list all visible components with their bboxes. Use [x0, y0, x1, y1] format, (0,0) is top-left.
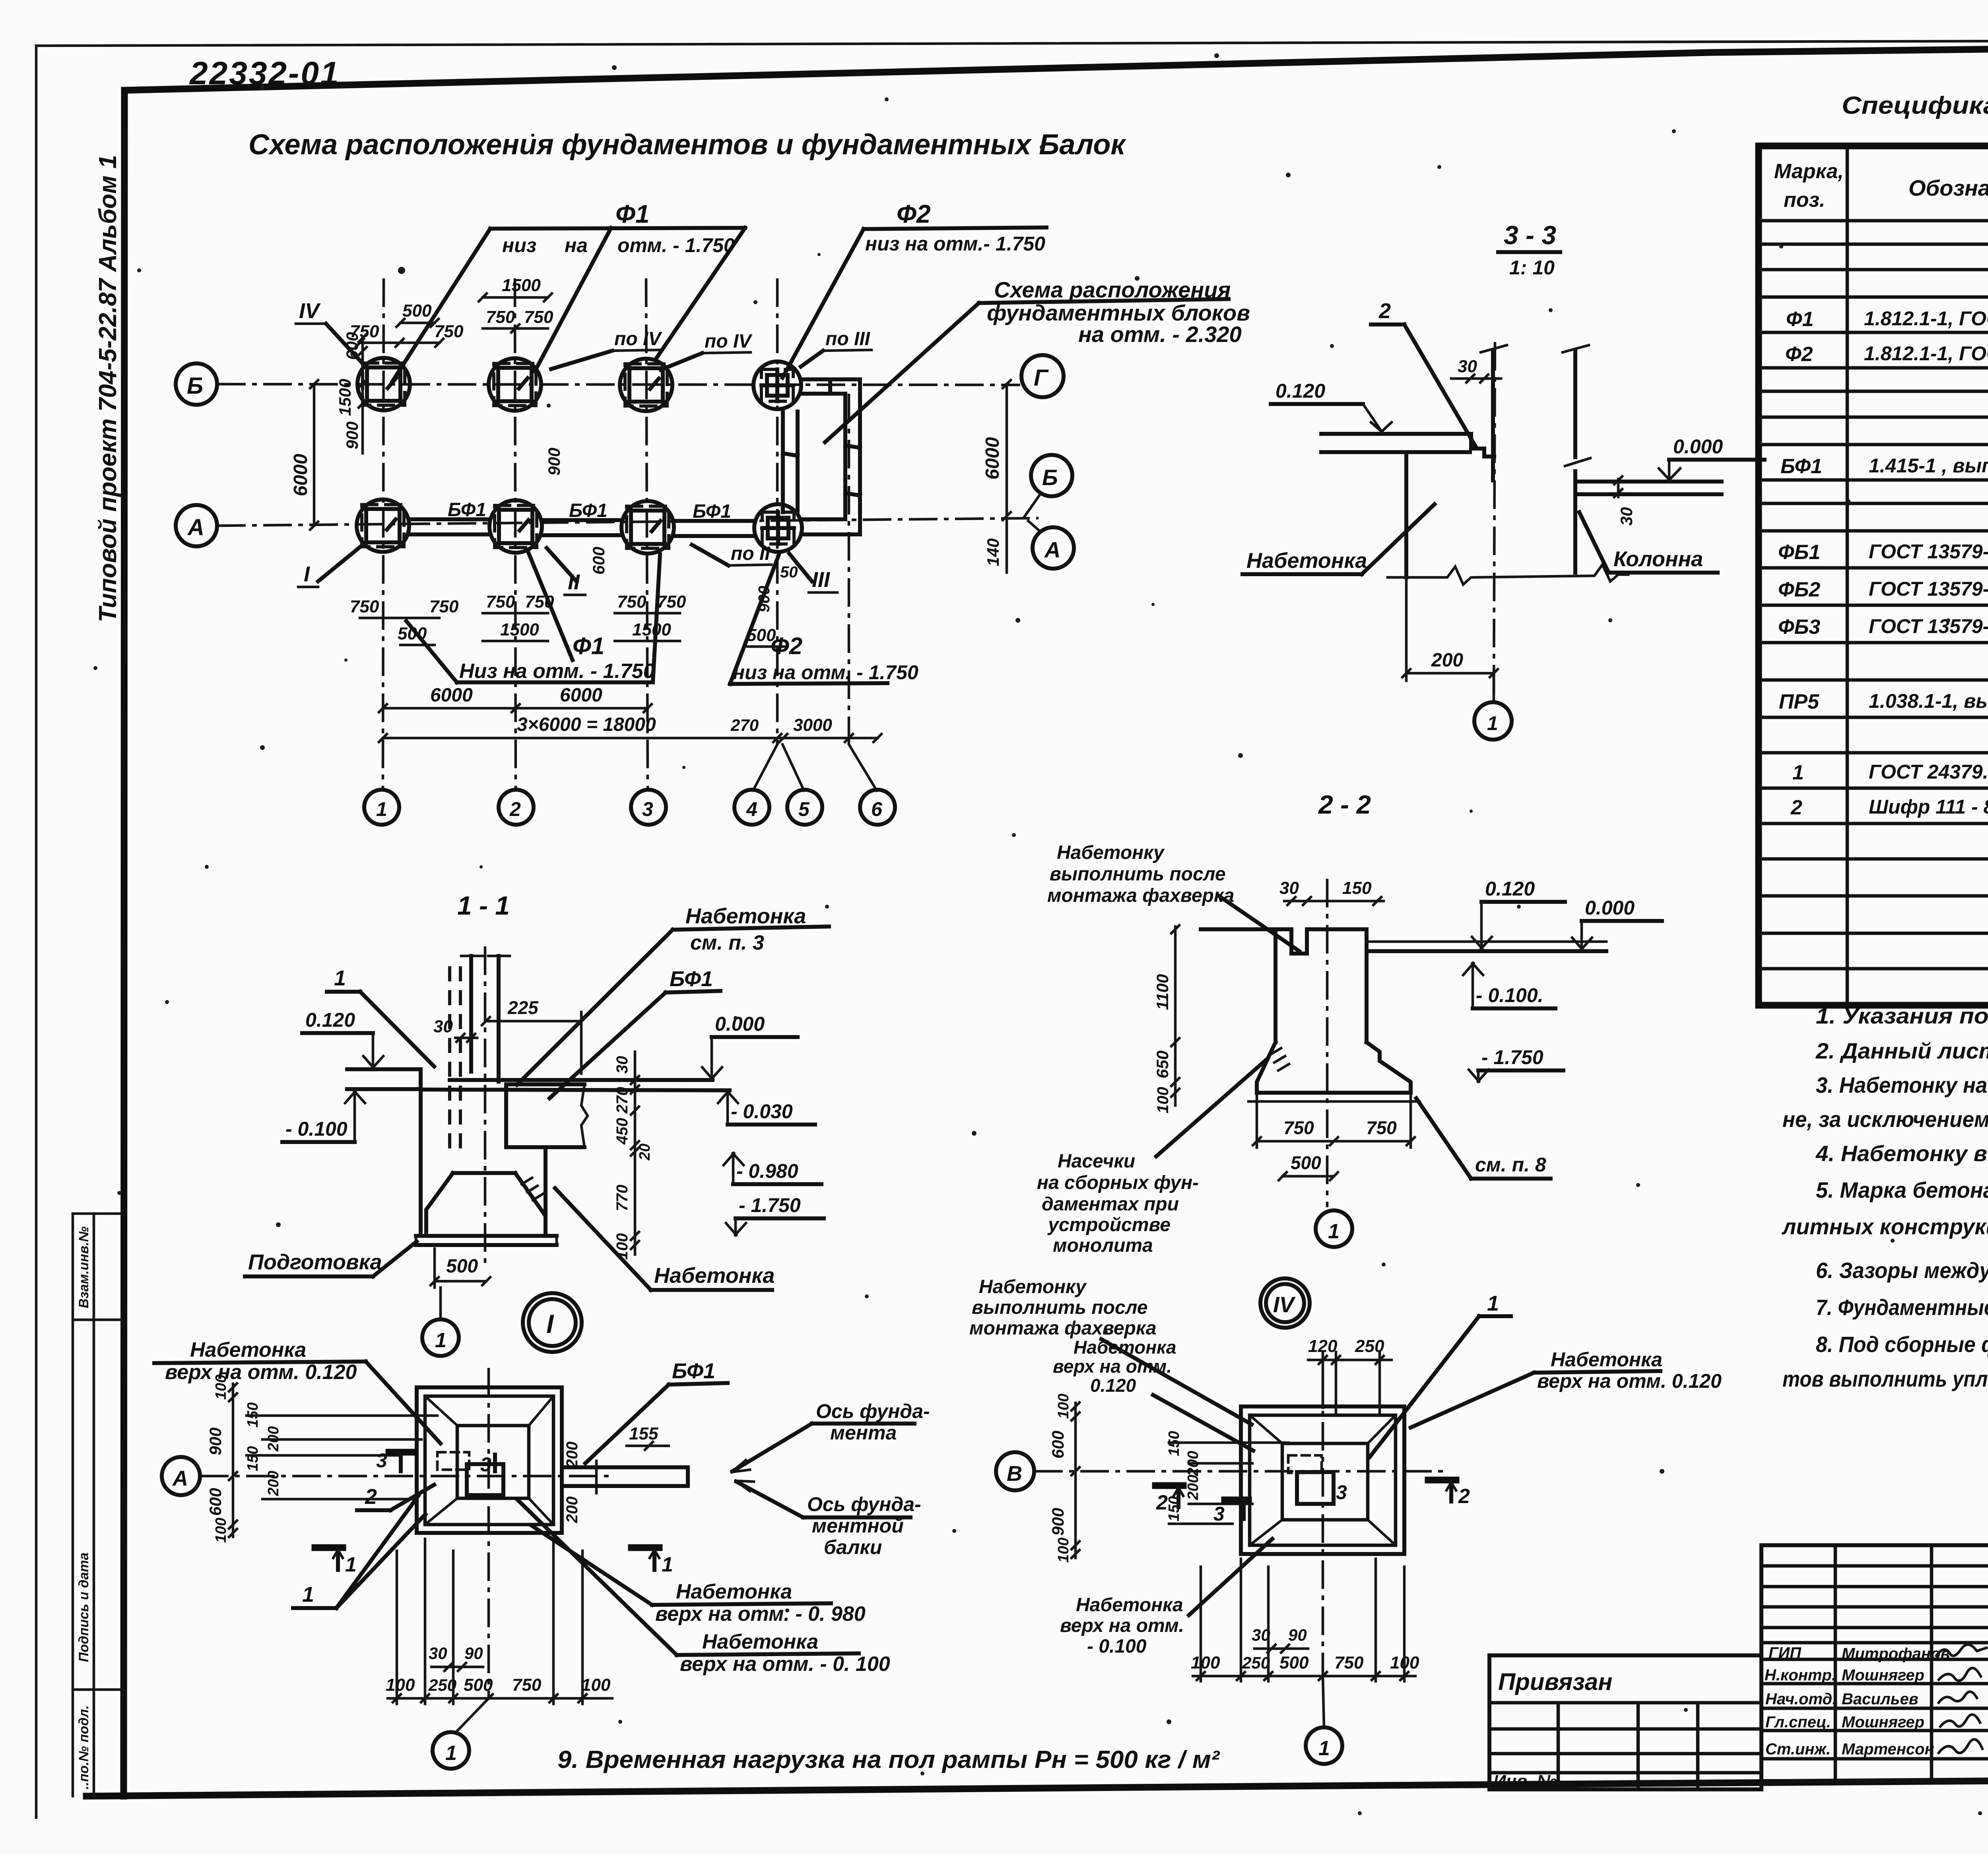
svg-text:БФ1: БФ1 [1780, 455, 1822, 478]
dim 750 750 f2 [483, 307, 553, 332]
svg-text:1: 1 [1318, 1737, 1330, 1760]
svg-text:на: на [565, 234, 588, 256]
svg-text:900: 900 [755, 586, 773, 612]
svg-text:Подпись и дата: Подпись и дата [76, 1552, 91, 1662]
svg-text:1.415-1 , вып. 1: 1.415-1 , вып. 1 [1869, 455, 1988, 477]
left margin small boxes [73, 1214, 124, 1796]
pedestal [1276, 927, 1291, 931]
inner small dims [1166, 1431, 1288, 1524]
svg-text:низ: низ [502, 234, 536, 256]
svg-text:6000: 6000 [560, 685, 602, 706]
svg-text:В: В [1007, 1462, 1022, 1486]
svg-text:0.120: 0.120 [305, 1009, 355, 1031]
dims below row А f2 [483, 592, 554, 641]
PLAN [176, 200, 1250, 825]
cup inner [1250, 1415, 1282, 1443]
flag Ф2 with leader [782, 200, 1046, 378]
bottom dim line 2: 3x6000=18000, 270, 3000 [379, 714, 881, 742]
svg-text:1500: 1500 [500, 620, 539, 639]
svg-text:Шифр 111 - 83 . 2 - 0030: Шифр 111 - 83 . 2 - 0030 [1869, 796, 1988, 818]
svg-text:0.000: 0.000 [1585, 897, 1635, 919]
svg-text:Схема расположения фундаме: Схема расположения фундаментов и фундаме… [248, 129, 1127, 161]
svg-text:Нач.отд.: Нач.отд. [1765, 1690, 1837, 1708]
svg-text:770: 770 [613, 1185, 631, 1211]
svg-text:155: 155 [629, 1424, 658, 1443]
foundation beams БФ1 row А [409, 519, 755, 536]
base podgotovka [416, 1234, 557, 1238]
svg-text:даментах при: даментах при [1042, 1194, 1179, 1215]
svg-text:Набетонку: Набетонку [979, 1276, 1087, 1298]
svg-text:Ф1: Ф1 [573, 633, 604, 659]
svg-text:750: 750 [524, 307, 553, 327]
foundation Ф1 at Б/1 [357, 358, 410, 410]
svg-text:6000: 6000 [290, 454, 311, 496]
label Колонна [1579, 512, 1718, 573]
nabetonka left vertical [1404, 452, 1408, 577]
svg-text:Ось фунда-: Ось фунда- [816, 1400, 930, 1422]
svg-text:Б: Б [1042, 465, 1058, 490]
leader 1 [293, 1496, 425, 1608]
svg-text:500: 500 [464, 1675, 493, 1695]
svg-text:650: 650 [1153, 1051, 1172, 1078]
vertical lines [1834, 1545, 1837, 1781]
svg-text:0.000: 0.000 [1673, 435, 1723, 458]
column axis [1494, 342, 1495, 703]
svg-text:ФБ1: ФБ1 [1778, 541, 1820, 564]
svg-text:Ф1: Ф1 [615, 200, 650, 228]
column axis [484, 946, 487, 1265]
label Набетонка [1242, 504, 1435, 574]
svg-text:1: 1 [662, 1553, 673, 1576]
svg-text:ГИП: ГИП [1769, 1644, 1802, 1662]
main title block frame [1761, 1545, 1988, 1781]
svg-text:- 0.100: - 0.100 [285, 1118, 348, 1140]
svg-text:А: А [172, 1467, 188, 1490]
svg-text:Ф1: Ф1 [1786, 308, 1814, 331]
svg-text:30: 30 [429, 1644, 447, 1663]
svg-text:Марка,: Марка, [1774, 160, 1844, 183]
grid circle 1 [1474, 673, 1512, 740]
dim 30 top [1451, 357, 1501, 383]
svg-text:900: 900 [343, 422, 361, 449]
svg-text:Типовой проект 704-5-22.87: Типовой проект 704-5-22.87 Альбом 1 [94, 155, 122, 622]
foundation Ф1 at А/3 [621, 501, 674, 554]
svg-text:6000: 6000 [430, 685, 473, 706]
svg-text:на сборных фун-: на сборных фун- [1037, 1172, 1199, 1193]
beam БФ1 to the right [562, 1465, 688, 1469]
column outline [1491, 350, 1495, 480]
TBLOCK [1489, 1545, 1988, 1823]
svg-text:5. Марка бетона по морозост: 5. Марка бетона по морозостойкости для в… [1816, 1177, 1988, 1202]
vertical centerline [487, 1368, 490, 1698]
svg-text:Набетонка: Набетонка [702, 1630, 818, 1653]
svg-text:22332-01: 22332-01 [189, 55, 340, 91]
svg-text:верх на отм.: верх на отм. [1053, 1356, 1172, 1377]
svg-text:9. Временная нагрузка на: 9. Временная нагрузка на пол рампы Рн = … [557, 1746, 1220, 1773]
anchor bolts dashed [448, 966, 451, 1149]
svg-text:270: 270 [613, 1087, 631, 1114]
svg-text:270: 270 [730, 716, 759, 734]
left dim chain [206, 1375, 237, 1543]
label по III [801, 328, 872, 367]
column square [467, 1464, 503, 1495]
svg-text:750: 750 [486, 307, 515, 327]
svg-text:- 0.980: - 0.980 [736, 1160, 798, 1182]
svg-text:Набетонка: Набетонка [1551, 1348, 1662, 1371]
label Ось фундамента [732, 1400, 930, 1472]
floors [1201, 927, 1276, 931]
svg-text:по III: по III [825, 328, 871, 350]
svg-text:выполнить после: выполнить после [1050, 864, 1226, 885]
svg-text:250: 250 [1242, 1653, 1270, 1672]
grid circle 1 [1316, 1210, 1352, 1247]
ramp slab left [347, 1067, 421, 1071]
svg-text:БФ1: БФ1 [693, 501, 731, 522]
svg-text:500: 500 [398, 624, 427, 643]
section marks 1 [315, 1548, 357, 1576]
svg-text:поз.: поз. [1784, 188, 1825, 212]
svg-text:1 - 1: 1 - 1 [457, 891, 510, 920]
svg-text:низ на отм. - 1.750: низ на отм. - 1.750 [733, 661, 918, 684]
svg-text:100: 100 [1055, 1394, 1072, 1419]
privyazan block [1489, 1655, 1761, 1789]
svg-text:500: 500 [402, 301, 432, 320]
leader 1 with two lines [1370, 1292, 1511, 1457]
dim 30 90 [429, 1644, 483, 1671]
svg-text:900: 900 [1048, 1508, 1067, 1536]
level mark 0.000 [1659, 435, 1765, 480]
svg-text:Набетонка: Набетонка [654, 1264, 775, 1288]
svg-text:Гл.спец.: Гл.спец. [1765, 1713, 1831, 1731]
SEC22 [1037, 790, 1662, 1256]
svg-text:6. Зазоры между торцами бал: 6. Зазоры между торцами балок и колонн з… [1816, 1258, 1988, 1283]
flag ramp blocks note [825, 277, 1250, 442]
svg-text:- 1.750: - 1.750 [1481, 1046, 1543, 1068]
leaders 3 [376, 1449, 413, 1472]
section mark IV top-left [296, 299, 363, 363]
signatures [1936, 1645, 1986, 1753]
svg-text:1. Указания по расчетам: 1. Указания по расчетам фундаментов см. … [1816, 1003, 1988, 1028]
dim 500 above f1 [396, 301, 439, 327]
svg-text:140: 140 [984, 538, 1002, 566]
section mark I [298, 547, 360, 587]
label по II [692, 543, 771, 565]
svg-text:Набетонка: Набетонка [1076, 1595, 1183, 1616]
foundation Ф2 at А/4 [754, 504, 802, 552]
level mark 0.120 [1271, 380, 1392, 433]
bottom dim line 1: 6000 6000 [379, 685, 652, 712]
svg-text:3000: 3000 [793, 715, 832, 735]
flag БФ1 [549, 967, 720, 1098]
svg-text:Н.контр.: Н.контр. [1765, 1667, 1836, 1684]
level marks left [302, 1009, 383, 1068]
svg-text:500: 500 [446, 1256, 478, 1277]
SEC11 [245, 891, 829, 1356]
svg-text:Набетонка: Набетонка [1074, 1337, 1176, 1358]
lower break line [1388, 565, 1628, 585]
svg-text:200: 200 [563, 1496, 581, 1523]
svg-text:30: 30 [1279, 878, 1299, 898]
svg-text:3: 3 [642, 798, 653, 820]
floor line right 0.000 [1578, 480, 1722, 484]
level marks right [702, 1013, 798, 1079]
svg-text:3. Набетонку на фундаментно: 3. Набетонку на фундаментной балке выпол… [1816, 1072, 1988, 1097]
svg-text:Ст.инж.: Ст.инж. [1765, 1740, 1831, 1758]
NOTES [1781, 1003, 1988, 1391]
axis circle А right [1033, 527, 1074, 569]
svg-text:100: 100 [581, 1675, 611, 1695]
svg-text:1: 10: 1: 10 [1509, 256, 1555, 279]
flag Набетонка -0.980 [531, 1525, 866, 1626]
leader 2 [357, 1485, 434, 1510]
dim 900 rotated near f2 top [545, 448, 608, 575]
svg-text:- 0.100.: - 0.100. [1476, 984, 1543, 1006]
label Набетонку выполнить [1047, 842, 1299, 951]
svg-text:750: 750 [1366, 1117, 1397, 1138]
dim 200 bottom [1402, 577, 1498, 681]
dim 750/750 f1 [350, 322, 464, 347]
svg-text:20: 20 [637, 1144, 653, 1161]
label Ось фундаментной балки [736, 1481, 921, 1558]
svg-text:1.812.1-1, ГОСТ 24022-80: 1.812.1-1, ГОСТ 24022-80 [1864, 342, 1988, 365]
svg-text:1: 1 [435, 1329, 447, 1352]
svg-text:750: 750 [350, 597, 379, 616]
svg-text:- 0.030: - 0.030 [731, 1100, 793, 1123]
foundation cup [453, 1171, 515, 1175]
svg-text:900: 900 [206, 1428, 225, 1455]
axis В circle [996, 1452, 1034, 1490]
ramp slab left 0.120 [1321, 432, 1471, 436]
svg-text:750: 750 [1283, 1117, 1314, 1138]
svg-text:5: 5 [798, 798, 810, 820]
flag Набетонка см.п.3 [517, 904, 829, 1085]
dims below row А f1 [350, 597, 459, 645]
svg-text:4. Набетонку выполнить из б: 4. Набетонку выполнить из бетона класса … [1815, 1141, 1988, 1166]
svg-text:А: А [187, 515, 204, 540]
right vertical dim 6000 and 140 [982, 380, 1011, 573]
svg-text:на отм. - 2.320: на отм. - 2.320 [1078, 322, 1242, 347]
svg-text:тов выполнить уплотненную: тов выполнить уплотненную щебеночную под… [1782, 1366, 1988, 1391]
svg-text:3 - 3: 3 - 3 [1504, 220, 1556, 250]
grid circle 1 bottom [433, 1698, 489, 1769]
svg-text:3: 3 [1336, 1481, 1347, 1503]
svg-text:Митрофанов: Митрофанов [1842, 1645, 1950, 1663]
section mark 3 [1213, 1481, 1347, 1525]
row lines [1759, 243, 1988, 246]
left dim chain [1153, 925, 1179, 1113]
svg-text:ГОСТ 13579-78: ГОСТ 13579-78 [1869, 578, 1988, 600]
svg-text:Набетонка: Набетонка [1246, 549, 1367, 573]
svg-text:2: 2 [1156, 1491, 1168, 1514]
svg-text:4: 4 [746, 798, 757, 820]
flag Набетонка верх 0.120 right [1411, 1348, 1722, 1428]
svg-text:1500: 1500 [502, 276, 541, 295]
label по IV (2) [661, 331, 753, 370]
right dim chain [613, 1052, 653, 1260]
svg-text:I: I [546, 1309, 554, 1338]
label см. п. 8 [1416, 1098, 1551, 1179]
axis line Б [217, 384, 1020, 385]
axis circle Б right [1031, 455, 1072, 496]
outer square [1241, 1406, 1404, 1554]
svg-text:200: 200 [1431, 650, 1463, 671]
svg-text:1: 1 [1328, 1220, 1340, 1243]
staff rows [1765, 1644, 1950, 1758]
ramp foundation block walls [783, 379, 860, 534]
grid circle 1 [422, 1288, 459, 1356]
svg-text:БФ1: БФ1 [670, 967, 713, 991]
svg-text:Низ на отм. - 1.750: Низ на отм. - 1.750 [459, 660, 655, 683]
svg-text:выполнить после: выполнить после [972, 1297, 1148, 1318]
svg-text:7. Фундаментные балки уклады: 7. Фундаментные балки укладывать на цеме… [1816, 1295, 1988, 1320]
svg-text:отм. - 1.750: отм. - 1.750 [617, 234, 735, 256]
svg-text:2: 2 [1378, 299, 1391, 323]
svg-text:Подготовка: Подготовка [248, 1250, 382, 1274]
svg-text:500: 500 [747, 625, 776, 645]
svg-text:Ф2: Ф2 [897, 200, 931, 228]
DETI [154, 1338, 1220, 1773]
svg-text:см. п. 8: см. п. 8 [1475, 1154, 1546, 1176]
svg-text:по II: по II [731, 543, 771, 564]
bottom grid circles 1..6 [753, 744, 777, 791]
foundation Ф1 at Б/3 [620, 359, 672, 411]
svg-text:Ось фунда-: Ось фунда- [807, 1493, 921, 1515]
svg-text:не, за исключением участка,: не, за исключением участка, на котором п… [1782, 1107, 1988, 1132]
svg-text:450: 450 [613, 1118, 631, 1145]
foundation Ф1 at А/1 [357, 499, 409, 552]
vertical dims left of f1 [336, 332, 367, 453]
svg-text:по IV: по IV [614, 328, 662, 350]
svg-text:600: 600 [589, 547, 608, 575]
svg-text:А: А [1044, 537, 1060, 562]
axis circle Б [176, 363, 217, 405]
flag Ф1 with leaders [392, 200, 745, 381]
left vertical dim 6000 [290, 380, 318, 530]
flag Набетонка верх 0.120 left [1053, 1337, 1253, 1451]
header separator [1759, 219, 1988, 223]
svg-text:1: 1 [334, 966, 346, 990]
top dims 120 250 [1308, 1336, 1392, 1416]
svg-text:устройстве: устройстве [1047, 1214, 1171, 1235]
inner frame left [124, 90, 124, 1796]
svg-text:1: 1 [445, 1742, 457, 1765]
svg-text:90: 90 [464, 1644, 483, 1663]
svg-text:Набетонка: Набетонка [685, 904, 806, 928]
svg-text:IV: IV [1273, 1292, 1296, 1317]
table frame [1759, 146, 1988, 1005]
svg-text:50: 50 [780, 563, 798, 581]
svg-text:Привязан: Привязан [1498, 1669, 1612, 1695]
svg-text:низ на отм.- 1.750: низ на отм.- 1.750 [865, 233, 1045, 255]
svg-text:200: 200 [563, 1441, 581, 1468]
flare and base [1257, 1042, 1276, 1093]
svg-text:ГОСТ 24379.1-80: ГОСТ 24379.1-80 [1869, 761, 1988, 783]
svg-text:1: 1 [1792, 761, 1804, 784]
dim 1500 above f2 [479, 276, 552, 301]
section mark II [547, 548, 585, 595]
label по IV (1) [551, 328, 662, 369]
foundation Ф1 at А/2 [489, 500, 542, 553]
svg-text:монтажа фахверка: монтажа фахверка [1047, 885, 1234, 906]
svg-text:ГОСТ 13579-78: ГОСТ 13579-78 [1869, 615, 1988, 637]
svg-text:1: 1 [302, 1583, 314, 1606]
label 2 with leader [1371, 299, 1476, 447]
nabetonka floor lines [450, 1078, 712, 1082]
svg-text:БФ1: БФ1 [672, 1359, 715, 1383]
svg-text:100: 100 [1055, 1538, 1072, 1563]
svg-text:Спецификация к схеме распо: Спецификация к схеме расположения фундам… [1842, 92, 1988, 119]
vertical centerline [1322, 1376, 1324, 1676]
svg-text:200: 200 [265, 1471, 282, 1496]
svg-text:2. Данный лист см. совмест: 2. Данный лист см. совместно с листом 8. [1815, 1038, 1988, 1063]
label Набетонка bottom [555, 1188, 775, 1290]
svg-text:30: 30 [613, 1056, 631, 1074]
svg-text:2: 2 [1790, 796, 1802, 819]
svg-text:Набетонку: Набетонку [1057, 842, 1165, 863]
dims top 30 150 [1279, 878, 1384, 905]
svg-text:8. Под сборные фундаменты к: 8. Под сборные фундаменты каркаса и блок… [1816, 1332, 1988, 1357]
svg-text:600: 600 [206, 1488, 225, 1516]
cup inner [425, 1396, 457, 1426]
svg-text:Ф2: Ф2 [1785, 343, 1813, 366]
svg-text:750: 750 [617, 592, 646, 612]
flag Набетонку выполнить после монтажа фахверка [969, 1276, 1252, 1424]
svg-text:Обозначение: Обозначение [1908, 175, 1988, 200]
svg-text:1500: 1500 [336, 379, 354, 416]
svg-text:Мошнягер: Мошнягер [1842, 1713, 1924, 1731]
svg-text:500: 500 [1279, 1653, 1309, 1672]
svg-text:по IV: по IV [705, 331, 753, 352]
column square [1297, 1472, 1334, 1504]
column verticals [469, 956, 473, 1072]
dim 30 90 [1252, 1626, 1308, 1653]
svg-text:- 1.750: - 1.750 [739, 1194, 801, 1216]
svg-text:6000: 6000 [982, 437, 1003, 480]
svg-text:Насечки: Насечки [1058, 1151, 1135, 1172]
svg-text:литных конструкций принята: литных конструкций принята F 50. [1781, 1214, 1988, 1239]
detail title IV double circle [1260, 1278, 1310, 1328]
svg-text:2: 2 [1458, 1485, 1470, 1508]
svg-text:БФ1: БФ1 [569, 500, 608, 521]
svg-text:30: 30 [1617, 507, 1636, 526]
svg-text:..по.№ подл.: ..по.№ подл. [76, 1705, 91, 1789]
svg-text:225: 225 [507, 997, 539, 1018]
svg-text:ГОСТ 13579-78: ГОСТ 13579-78 [1869, 540, 1988, 563]
svg-text:III: III [812, 568, 830, 592]
dim 500 bottom [431, 1249, 490, 1288]
svg-text:2 - 2: 2 - 2 [1318, 790, 1371, 819]
label Подготовка [245, 1241, 417, 1276]
DETIV [969, 1276, 1722, 1764]
svg-text:100: 100 [1154, 1087, 1172, 1113]
svg-text:Набетонка: Набетонка [190, 1338, 306, 1362]
svg-text:монтажа фахверка: монтажа фахверка [969, 1318, 1156, 1339]
SEC33 [1242, 220, 1765, 740]
svg-text:1.038.1-1, вып. 1: 1.038.1-1, вып. 1 [1869, 690, 1988, 712]
frame bottom [86, 1777, 1988, 1796]
svg-text:монолита: монолита [1053, 1235, 1153, 1256]
svg-text:90: 90 [1288, 1626, 1307, 1644]
grid circle 1 bottom [1306, 1676, 1342, 1764]
dim 225 [482, 997, 585, 1074]
svg-text:500: 500 [1291, 1152, 1321, 1173]
svg-text:3: 3 [1213, 1503, 1225, 1525]
svg-text:Взам.инв.№: Взам.инв.№ [76, 1226, 91, 1308]
foundation Ф1 at Б/2 [489, 358, 541, 411]
dim 30 left of column [433, 1017, 477, 1042]
svg-text:30: 30 [1252, 1626, 1270, 1644]
svg-text:1500: 1500 [632, 620, 671, 639]
